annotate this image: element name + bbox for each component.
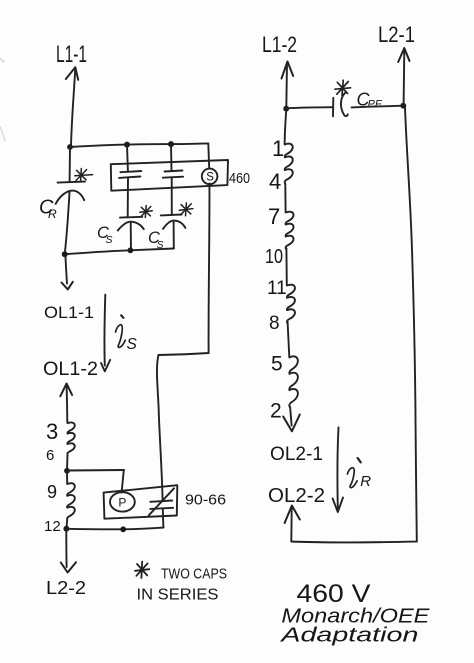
capacitor CR arc: [56, 191, 85, 204]
capacitor CS right plate: [161, 214, 182, 217]
asterisk CS right: [179, 203, 193, 216]
inductor seg 7-10: [286, 212, 294, 249]
wire to CPF: [286, 107, 332, 108]
paper smudge: [0, 59, 4, 63]
inductor seg 5-2: [289, 356, 298, 407]
svg-text:2: 2: [270, 400, 282, 423]
svg-text:460: 460: [229, 170, 250, 187]
wire cap tail to CS left: [127, 178, 129, 217]
junction dot: [127, 247, 133, 253]
wire CPF to L2-1: [352, 106, 404, 108]
inductor 9-12: [66, 471, 74, 529]
svg-text:9: 9: [47, 482, 57, 502]
capacitor CPF: [332, 98, 334, 117]
svg-text:6: 6: [46, 447, 54, 464]
svg-text:7: 7: [268, 204, 280, 229]
asterisk CR: [75, 169, 93, 182]
capacitor CR plate: [58, 182, 86, 183]
wire step left: [159, 353, 209, 355]
wire CS left down: [130, 222, 132, 250]
terminal arrow down OL1-1: [66, 257, 68, 284]
svg-text:L2-1: L2-1: [378, 22, 415, 47]
wire S down long: [208, 183, 211, 353]
svg-text:90-66: 90-66: [185, 492, 226, 509]
terminal arrow L1-1: [71, 68, 75, 147]
svg-text:Adaptation: Adaptation: [280, 625, 418, 647]
svg-text:11: 11: [267, 278, 287, 299]
inductor seg 11-8: [287, 285, 295, 323]
current arrow iS: [103, 295, 106, 366]
paper smudge: [1, 127, 6, 141]
wire CS right down: [173, 222, 175, 249]
svg-text:460 V: 460 V: [297, 580, 371, 608]
wire S top: [207, 143, 210, 168]
wire top horizontal: [70, 143, 208, 147]
junction dot: [124, 142, 130, 148]
wire cap C1 feed: [126, 145, 129, 172]
svg-text:S: S: [106, 234, 113, 246]
wire through CR: [69, 147, 71, 181]
note asterisk: [135, 562, 149, 579]
label iS: [121, 315, 123, 318]
node A junction dot: [67, 144, 73, 150]
svg-text:8: 8: [269, 313, 280, 334]
contactor S circle: [202, 169, 218, 185]
relay box P: [104, 485, 178, 519]
svg-text:L1-2: L1-2: [262, 32, 297, 57]
asterisk CPF: [335, 80, 351, 95]
junction dot: [120, 526, 126, 532]
svg-text:PF: PF: [368, 99, 383, 111]
junction dot: [283, 106, 289, 112]
svg-text:OL1-2: OL1-2: [43, 359, 98, 380]
svg-text:3: 3: [46, 419, 58, 444]
svg-text:12: 12: [44, 518, 61, 535]
capacitor in box (left): [120, 171, 141, 172]
svg-text:OL2-1: OL2-1: [270, 444, 323, 465]
current arrow iR: [337, 428, 338, 509]
capacitor CS right arc: [163, 221, 185, 229]
label iR: [358, 458, 361, 462]
terminal arrow down L2-2: [65, 532, 67, 567]
wire right long down: [405, 108, 417, 542]
capacitor in P box plates: [150, 501, 172, 502]
svg-text:OL2-2: OL2-2: [268, 485, 325, 507]
svg-text:4: 4: [269, 169, 281, 194]
terminal arrow L1-2: [285, 63, 288, 108]
svg-text:5: 5: [271, 353, 283, 376]
inductor 3-6: [67, 422, 75, 472]
inductor seg 1-4: [285, 144, 293, 184]
wire 4-7: [284, 184, 286, 212]
terminal arrow up OL1-2: [66, 385, 69, 422]
switch box S: [111, 160, 228, 191]
node B junction dot: [62, 251, 68, 257]
wire bottom right: [291, 541, 417, 544]
svg-text:L1-1: L1-1: [56, 41, 87, 68]
wire step down to P cap: [157, 355, 163, 501]
junction dot: [400, 103, 406, 109]
terminal arrow L2-1: [403, 49, 406, 105]
wire 8-5: [288, 322, 290, 357]
wire into coil: [285, 109, 287, 144]
svg-text:S: S: [127, 336, 138, 353]
wire bottom of P: [66, 528, 163, 530]
capacitor CS left plate: [120, 216, 142, 219]
wire 10-11: [285, 249, 287, 286]
wire cap C2 feed: [170, 144, 173, 171]
terminal arrow up OL2-2: [290, 508, 292, 542]
svg-text:OL1-1: OL1-1: [44, 303, 94, 322]
svg-text:P: P: [118, 496, 126, 510]
capacitor CS left arc: [118, 222, 144, 231]
wire cap tail to CS right: [171, 178, 173, 215]
junction dot: [63, 526, 69, 532]
asterisk CS left: [140, 206, 152, 218]
svg-text:1: 1: [272, 136, 284, 161]
junction dot: [64, 468, 70, 474]
svg-text:S: S: [206, 171, 214, 183]
wire bottom of caps: [65, 249, 174, 255]
svg-text:IN SERIES: IN SERIES: [137, 587, 219, 604]
capacitor in box (right): [165, 171, 183, 172]
svg-text:L2-2: L2-2: [46, 578, 86, 598]
terminal arrow down OL2-1: [290, 407, 292, 426]
capacitor slash: [149, 488, 174, 515]
junction dot: [168, 141, 174, 147]
svg-text:TWO CAPS: TWO CAPS: [161, 566, 227, 583]
svg-text:10: 10: [265, 246, 283, 268]
wire below P cap: [162, 509, 165, 527]
relay coil P circle: [110, 492, 135, 511]
svg-text:R: R: [48, 207, 57, 221]
svg-text:R: R: [360, 473, 371, 490]
wire to P: [67, 469, 124, 472]
